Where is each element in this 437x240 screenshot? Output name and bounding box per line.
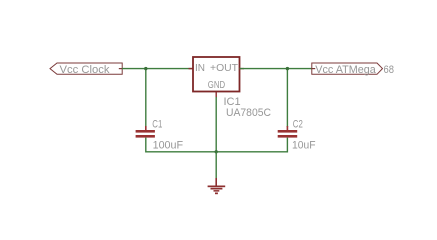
wire: input net tap down to C1 [145, 69, 147, 127]
ground symbol [208, 178, 226, 194]
wire: C2 down to ground bus [286, 138, 288, 153]
junction: ground bus / IC1 GND [215, 150, 218, 153]
wire: IC1 GND pin down to ground bus [215, 97, 217, 152]
pin stub: IC1 IN pin [189, 68, 194, 70]
pin stub: IC1 GND pin [215, 92, 217, 98]
svg-text:Vcc ATMega: Vcc ATMega [315, 64, 376, 76]
wire: C1 down to ground bus [145, 138, 147, 153]
supply flag VCC_ATMEGA [312, 63, 383, 74]
svg-text:C1: C1 [152, 118, 162, 130]
wire: ground bus down to GND symbol [215, 152, 217, 178]
capacitor C2 [278, 126, 298, 138]
junction: output net / C2 [286, 67, 289, 70]
pin stub: IC1 OUT pin [240, 68, 245, 70]
wire: VCC_CLOCK flag to IC1 IN pin [122, 68, 193, 70]
svg-text:C2: C2 [293, 118, 303, 130]
svg-text:10uF: 10uF [292, 139, 316, 151]
svg-text:GND: GND [208, 80, 225, 91]
svg-text:IN: IN [195, 63, 205, 74]
voltage regulator IC1 body [193, 57, 240, 92]
wire: output net tap down to C2 [286, 69, 288, 127]
svg-text:68: 68 [384, 64, 395, 76]
wire: ground bus (C1 to C2) [146, 151, 288, 153]
svg-text:+OUT: +OUT [210, 63, 238, 74]
svg-text:Vcc Clock: Vcc Clock [60, 64, 111, 76]
svg-text:100uF: 100uF [153, 139, 184, 151]
capacitor C1 [136, 126, 155, 138]
supply flag VCC_CLOCK [50, 63, 122, 74]
wire: IC1 OUT pin to VCC_ATMEGA flag [240, 68, 313, 70]
junction: input net / C1 [144, 67, 147, 70]
svg-text:UA7805C: UA7805C [226, 107, 271, 119]
